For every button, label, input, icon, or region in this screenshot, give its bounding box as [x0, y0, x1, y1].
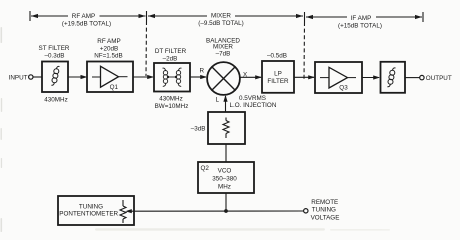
svg-text:–0.5dB: –0.5dB: [267, 53, 287, 60]
wire output filter to output terminal: [405, 77, 420, 79]
amplifier triangle Q3: [320, 67, 356, 88]
RF amp label: [94, 38, 123, 60]
ST filter label: [39, 45, 70, 59]
svg-text:R: R: [200, 68, 205, 75]
balanced mixer circle: [207, 62, 240, 95]
svg-text:–3dB: –3dB: [191, 125, 206, 132]
wire mixer to LP filter: [240, 75, 262, 79]
wire input to ST filter: [33, 76, 42, 78]
svg-text:ST FILTER: ST FILTER: [39, 45, 70, 52]
svg-text:TUNING: TUNING: [312, 207, 336, 214]
input terminal: [29, 75, 33, 79]
dashed section boundary line (MIXER/IF): [303, 22, 306, 81]
svg-text:Q1: Q1: [110, 84, 119, 91]
tuning potentiometer box: [58, 196, 134, 225]
DT filter box: [154, 63, 190, 92]
junction node: [224, 209, 228, 213]
svg-text:FILTER: FILTER: [267, 78, 289, 85]
tuning bus wire: [134, 210, 304, 212]
svg-text:INPUT: INPUT: [9, 74, 28, 81]
section divider tick at x=146.5: [146, 11, 148, 21]
svg-text:(+15dB TOTAL): (+15dB TOTAL): [338, 23, 382, 30]
RF AMP section label: [62, 13, 111, 27]
svg-text:VCO: VCO: [218, 168, 232, 175]
output filter coil: [387, 68, 395, 87]
remote tuning voltage label: [311, 199, 340, 222]
svg-text:0.5VRMS: 0.5VRMS: [239, 95, 266, 102]
L.O. injection label: [230, 95, 277, 109]
IF AMP section label: [338, 15, 382, 30]
svg-text:DT FILTER: DT FILTER: [155, 48, 187, 55]
svg-text:VOLTAGE: VOLTAGE: [311, 215, 340, 222]
wire DT filter to mixer R port: [190, 75, 207, 79]
ST filter value 430MHz: [44, 97, 67, 104]
tuning potentiometer label: [59, 203, 118, 217]
Q1 designator: [110, 84, 119, 91]
amplifier triangle Q1: [92, 66, 128, 87]
wire ST filter to RF amp: [68, 75, 87, 79]
IF amp box: [315, 62, 362, 93]
mixer L port label: [216, 97, 220, 104]
MIXER section span line: [148, 14, 303, 18]
svg-text:Q3: Q3: [339, 84, 348, 91]
output terminal: [420, 75, 424, 79]
svg-text:L: L: [216, 97, 220, 104]
remote tuning terminal: [304, 209, 308, 213]
potentiometer symbol: [120, 200, 134, 223]
RF AMP section span line: [31, 14, 146, 18]
svg-text:–0.3dB: –0.3dB: [45, 53, 65, 60]
svg-text:TUNING: TUNING: [79, 203, 103, 210]
LP filter box: [262, 61, 294, 93]
wire Q3 to output filter: [362, 75, 380, 79]
svg-text:L.O. INJECTION: L.O. INJECTION: [230, 102, 277, 109]
L.O. injection wire into mixer L port: [223, 95, 227, 112]
Q3 designator: [339, 84, 348, 91]
svg-text:RF AMP: RF AMP: [72, 13, 95, 20]
Q2 designator: [201, 165, 210, 172]
svg-text:MHz: MHz: [218, 183, 231, 190]
svg-text:430MHz: 430MHz: [44, 97, 67, 104]
LP filter loss label: [267, 53, 287, 60]
svg-text:(–9.5dB TOTAL): (–9.5dB TOTAL): [198, 20, 244, 27]
DT filter coupled coils: [163, 68, 182, 86]
svg-text:430MHz: 430MHz: [159, 96, 182, 103]
dashed section boundary line (RF/MIXER): [145, 21, 148, 76]
MIXER section label: [198, 13, 244, 27]
ST filter box: [42, 62, 68, 93]
INPUT label: [9, 74, 28, 81]
section divider tick at x=304.5: [304, 12, 306, 22]
wire attenuator to VCO: [225, 144, 227, 162]
svg-text:(+19.5dB TOTAL): (+19.5dB TOTAL): [62, 20, 111, 27]
attenuator loss label: [191, 125, 206, 132]
RF amp box: [87, 62, 133, 93]
svg-text:Q2: Q2: [201, 165, 210, 172]
OUTPUT label: [426, 75, 452, 82]
balanced mixer label: [206, 38, 240, 58]
svg-text:–2dB: –2dB: [163, 55, 178, 62]
section divider tick right: [422, 12, 424, 22]
wire VCO to tuning bus: [225, 193, 227, 211]
IF AMP section span line: [306, 15, 422, 19]
attenuator pad box: [208, 112, 245, 144]
section divider tick left: [29, 11, 31, 21]
VCO box: [198, 162, 254, 193]
output filter box: [381, 62, 406, 93]
mixer X cross: [212, 67, 235, 90]
attenuator resistor: [223, 118, 229, 139]
VCO text: [212, 168, 237, 191]
svg-text:OUTPUT: OUTPUT: [426, 75, 452, 82]
LP filter text: [267, 71, 289, 86]
svg-text:NF=1.5dB: NF=1.5dB: [94, 53, 123, 60]
svg-text:MIXER: MIXER: [211, 13, 231, 20]
svg-text:RF AMP: RF AMP: [97, 38, 120, 45]
svg-text:–7dB: –7dB: [216, 50, 231, 57]
svg-text:BW=10MHz: BW=10MHz: [155, 103, 189, 110]
DT filter label: [155, 48, 187, 62]
mixer X port label: [243, 71, 248, 78]
ST filter coil: [51, 66, 59, 85]
wire LP filter to Q3 amp: [294, 75, 315, 79]
mixer R port label: [200, 68, 205, 75]
svg-text:IF AMP: IF AMP: [351, 15, 372, 22]
svg-text:350–380: 350–380: [212, 175, 237, 182]
DT filter values: [155, 96, 189, 110]
svg-text:PONTENTIOMETER: PONTENTIOMETER: [59, 211, 118, 218]
svg-text:+20dB: +20dB: [100, 45, 118, 52]
svg-text:REMOTE: REMOTE: [311, 199, 338, 206]
wire RF amp to DT filter: [133, 75, 154, 79]
svg-text:LP: LP: [274, 71, 282, 78]
